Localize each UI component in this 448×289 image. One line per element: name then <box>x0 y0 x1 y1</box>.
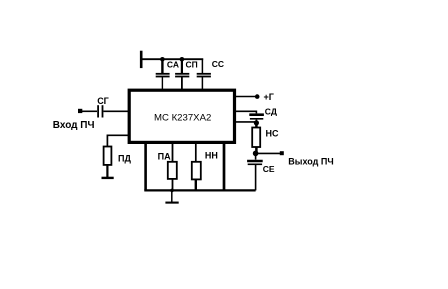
svg-text:Вход ПЧ: Вход ПЧ <box>53 120 95 131</box>
svg-text:СА: СА <box>167 60 179 70</box>
svg-text:СГ: СГ <box>97 96 109 106</box>
svg-text:СС: СС <box>212 59 224 69</box>
svg-text:Выход ПЧ: Выход ПЧ <box>288 156 333 166</box>
svg-text:+Г: +Г <box>264 92 274 102</box>
svg-text:СП: СП <box>186 60 198 70</box>
svg-text:НН: НН <box>205 151 218 161</box>
svg-text:ПА: ПА <box>158 151 171 161</box>
svg-text:МС К237ХА2: МС К237ХА2 <box>154 113 211 124</box>
svg-text:НС: НС <box>266 128 279 138</box>
svg-text:ПД: ПД <box>118 154 131 164</box>
svg-text:СЕ: СЕ <box>263 164 275 174</box>
svg-text:СД: СД <box>265 106 277 116</box>
